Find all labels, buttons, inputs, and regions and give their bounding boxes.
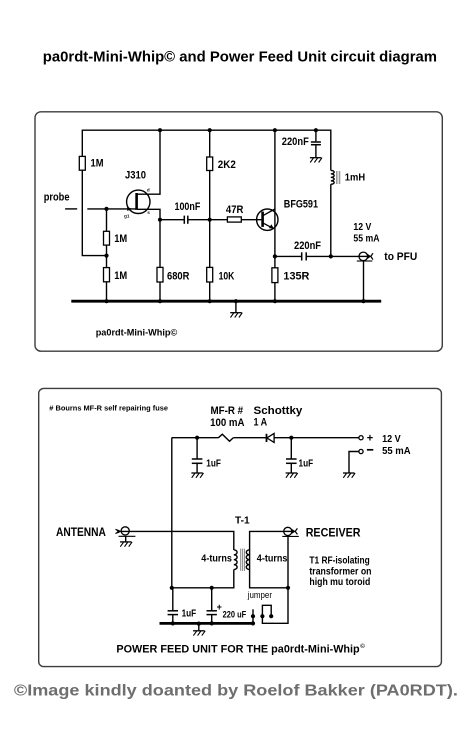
- resistor R3 1M: [104, 268, 110, 282]
- ground: hatch box1: [230, 313, 242, 318]
- capacitor C5 1uF with leads: [286, 438, 297, 473]
- label RECEIVER: [306, 525, 361, 539]
- node: C4 junction: [195, 436, 199, 440]
- svg-text:jumper: jumper: [247, 590, 272, 600]
- svg-text:55 mA: 55 mA: [382, 446, 411, 457]
- label to PFU: [384, 251, 417, 263]
- capacitor C7 220uF with leads: [207, 588, 217, 624]
- label T-1: [235, 515, 250, 526]
- label Schottky: [254, 405, 303, 417]
- ground: rail stub box2: [197, 622, 201, 631]
- wire: divider column segments: [106, 209, 108, 302]
- label T1 note line3: [309, 577, 370, 588]
- label 220nF C2: [282, 136, 309, 148]
- svg-text:4-turns: 4-turns: [257, 554, 288, 565]
- wire: 680R to rail: [159, 282, 161, 302]
- jumper JP1 link bracket: [262, 605, 271, 616]
- ground: minus terminal: [343, 473, 355, 478]
- label 47R: [226, 204, 244, 216]
- label J310: [125, 170, 146, 182]
- wire: source lead down: [138, 209, 161, 267]
- label 4-turns secondary: [257, 554, 288, 565]
- node: divider at ground rail: [104, 299, 108, 303]
- jumper JP1 pin 2: [260, 614, 264, 618]
- svg-text:1uF: 1uF: [206, 458, 221, 469]
- label 100 mA: [210, 417, 245, 429]
- resistor R7 47R with leads: [210, 217, 262, 222]
- wire: antenna to primary: [122, 531, 234, 550]
- svg-text:10K: 10K: [219, 271, 235, 283]
- wire: gate wire: [87, 208, 136, 210]
- svg-text:2K2: 2K2: [218, 159, 236, 171]
- svg-text:d: d: [147, 188, 150, 194]
- diode D1 Schottky: [267, 433, 275, 442]
- svg-text:100 mA: 100 mA: [210, 417, 245, 429]
- label 12 V pfu: [382, 434, 401, 445]
- label 2K2: [218, 159, 236, 171]
- ground: below C2: [310, 158, 322, 163]
- svg-text:probe: probe: [44, 192, 70, 204]
- wire: supply wire right segment: [274, 437, 359, 439]
- svg-text:135R: 135R: [283, 271, 309, 283]
- label copyright sup: [360, 643, 365, 650]
- ground: hatch box2: [193, 631, 205, 636]
- label 135R: [283, 271, 309, 283]
- svg-text:RECEIVER: RECEIVER: [306, 525, 361, 539]
- resistor R5 2K2: [207, 157, 213, 171]
- svg-text:high mu toroid: high mu toroid: [309, 577, 370, 588]
- svg-text:to PFU: to PFU: [384, 251, 417, 263]
- ground: C5: [286, 473, 298, 478]
- wire: supply wire left segment: [172, 437, 219, 439]
- node: C6 at rail: [171, 621, 175, 625]
- label ANTENNA: [56, 525, 106, 539]
- label 1M R1: [91, 158, 104, 170]
- pin label s: [147, 211, 150, 216]
- label 1uF C5: [299, 458, 314, 469]
- label 100nF: [175, 201, 201, 213]
- wire: collector-emitter column: [274, 130, 276, 256]
- svg-text:220nF: 220nF: [282, 136, 309, 148]
- label 1mH: [345, 172, 365, 183]
- wire: primary bottom return: [172, 570, 234, 588]
- svg-text:T-1: T-1: [235, 515, 250, 526]
- svg-text:pa0rdt-Mini-Whip© and Power Fe: pa0rdt-Mini-Whip© and Power Feed Unit ci…: [43, 49, 437, 66]
- wire: probe stub: [65, 208, 77, 210]
- wire: 2K2 column segments: [209, 130, 211, 301]
- wire: output shield to rail: [363, 261, 365, 302]
- connector: minus terminal: [359, 449, 363, 453]
- svg-text:1uF: 1uF: [299, 458, 314, 469]
- capacitor C4 1uF with leads: [192, 438, 203, 473]
- capacitor C1 100nF: [160, 216, 210, 224]
- node: gate junction: [104, 207, 108, 211]
- svg-text:47R: 47R: [226, 204, 244, 216]
- svg-text:12 V: 12 V: [382, 434, 401, 445]
- jumper JP1 pin 1: [251, 609, 255, 625]
- pin label g1: [124, 213, 130, 219]
- label plus sign: [367, 432, 373, 444]
- transistor Q1 J310 JFET: [127, 190, 150, 213]
- ground: main ground box1: [234, 299, 238, 313]
- resistor R2 1M: [104, 231, 110, 245]
- box: Mini-Whip circuit enclosure: [35, 112, 442, 351]
- wire: minus terminal to ground: [349, 452, 359, 474]
- svg-text:220 uF: 220 uF: [223, 609, 247, 619]
- svg-text:680R: 680R: [167, 271, 189, 283]
- transformer T1 secondary winding: [246, 550, 249, 570]
- label jumper: [247, 590, 272, 600]
- svg-text:+: +: [367, 432, 373, 444]
- label Bourns note: [49, 404, 168, 413]
- wire: ground rail box2: [160, 622, 254, 625]
- svg-text:©: ©: [360, 643, 365, 650]
- wire: drain to rail: [138, 131, 161, 194]
- fuse F1 MF-R zigzag: [219, 434, 234, 441]
- svg-text:MF-R #: MF-R #: [211, 405, 244, 417]
- transformer T1 core: [241, 549, 245, 571]
- node: divider mid junction: [104, 254, 108, 258]
- wire: supply wire mid segment: [233, 437, 266, 439]
- svg-text:1uF: 1uF: [182, 608, 197, 619]
- label plus C7: [217, 602, 222, 612]
- label pa0rdt-Mini-Whip: [96, 327, 178, 338]
- wire: ground rail box1: [71, 300, 381, 303]
- resistor R6 10K: [207, 267, 213, 282]
- inductor L1 1mH: [331, 170, 340, 256]
- jumper JP1 pin 3: [269, 614, 273, 618]
- label 220nF C3: [294, 240, 321, 252]
- label 1uF C4: [206, 458, 221, 469]
- label T1 note line1: [309, 556, 369, 567]
- node: rail-collector column: [273, 128, 277, 132]
- wire: secondary bottom: [250, 570, 288, 588]
- label 10K: [219, 271, 235, 283]
- label 55 mA: [353, 234, 380, 245]
- capacitor C2 220nF decoupling with leads: [311, 130, 321, 158]
- node: left feed at return: [170, 586, 174, 590]
- svg-text:+: +: [217, 602, 222, 612]
- svg-text:12 V: 12 V: [353, 222, 371, 233]
- node: C7 at rail: [210, 621, 214, 625]
- label probe: [44, 192, 70, 204]
- svg-text:4-turns: 4-turns: [201, 554, 232, 565]
- connector: +12V terminal: [359, 436, 363, 440]
- box: Power Feed Unit enclosure: [39, 388, 442, 666]
- node: 10K at ground rail: [208, 299, 212, 303]
- svg-text:©Image kindly doanted by Roelo: ©Image kindly doanted by Roelof Bakker (…: [14, 683, 458, 700]
- ground: C4: [191, 473, 203, 478]
- wire: secondary top to receiver: [250, 531, 284, 569]
- svg-text:Schottky: Schottky: [254, 405, 303, 417]
- svg-text:J310: J310: [125, 170, 146, 182]
- svg-text:1mH: 1mH: [345, 172, 365, 183]
- svg-text:g1: g1: [124, 213, 130, 219]
- wire: top supply rail: [82, 130, 330, 170]
- label T1 note line2: [309, 566, 371, 577]
- svg-text:BFG591: BFG591: [284, 199, 318, 211]
- node: emitter junction: [273, 254, 277, 258]
- svg-text:transformer on: transformer on: [309, 566, 371, 577]
- label 1M R3: [114, 270, 127, 282]
- node: secondary return junction: [286, 586, 290, 590]
- svg-text:POWER FEED UNIT FOR THE pa0rdt: POWER FEED UNIT FOR THE pa0rdt-Mini-Whip: [116, 644, 360, 656]
- wire: pin2 to receiver return: [262, 588, 288, 624]
- resistor R1 1M: [79, 156, 85, 170]
- label 12 V: [353, 222, 371, 233]
- svg-text:ANTENNA: ANTENNA: [56, 525, 106, 539]
- svg-text:T1 RF-isolating: T1 RF-isolating: [309, 556, 369, 567]
- label 680R: [167, 271, 189, 283]
- node: 1mH-output junction: [329, 254, 333, 258]
- svg-text:s: s: [147, 211, 150, 216]
- caption: [14, 683, 458, 700]
- label MF-R #: [211, 405, 244, 417]
- svg-text:pa0rdt-Mini-Whip©: pa0rdt-Mini-Whip©: [96, 327, 178, 338]
- label 1uF C6: [182, 608, 197, 619]
- node: C5 junction: [289, 436, 293, 440]
- pin label d: [147, 188, 150, 194]
- node: rail-drain column: [158, 128, 162, 132]
- svg-text:1 A: 1 A: [254, 417, 268, 429]
- node: rail-2K2 column: [208, 128, 212, 132]
- connector J2 antenna jack: [116, 527, 136, 542]
- svg-text:55 mA: 55 mA: [353, 234, 380, 245]
- node: 135R at ground rail: [273, 299, 277, 303]
- svg-text:100nF: 100nF: [175, 201, 201, 213]
- label 1M R2: [114, 233, 127, 245]
- label minus sign: [367, 449, 373, 451]
- resistor R4 680R: [157, 267, 163, 282]
- transformer T1 primary winding: [234, 550, 237, 570]
- svg-text:220nF: 220nF: [294, 240, 321, 252]
- resistor R8 135R: [272, 268, 278, 283]
- capacitor C6 1uF with leads: [168, 588, 178, 624]
- connector J3 receiver jack: [282, 527, 299, 536]
- title: [43, 49, 437, 66]
- node: 2K2-100nF junction: [208, 218, 212, 222]
- label 55 mA pfu: [382, 446, 411, 457]
- svg-text:1M: 1M: [114, 270, 127, 282]
- transistor Q2 BFG591: [257, 209, 278, 230]
- node: 680R at ground rail: [158, 299, 162, 303]
- label 4-turns primary: [201, 554, 232, 565]
- svg-text:1M: 1M: [91, 158, 104, 170]
- ground: antenna jack: [120, 542, 132, 547]
- wire: 135R leads: [274, 256, 276, 301]
- wire: receiver shield down: [287, 536, 289, 587]
- label BFG591: [284, 199, 318, 211]
- label 1 A: [254, 417, 268, 429]
- node: output shield at rail: [361, 299, 365, 303]
- svg-text:# Bourns MF-R self repairing f: # Bourns MF-R self repairing fuse: [49, 404, 168, 413]
- connector J1 output jack to PFU: [357, 252, 373, 261]
- node: 220uF at return: [210, 586, 214, 590]
- node: source-100nF junction: [158, 218, 162, 222]
- wire: left vertical feed: [171, 438, 173, 588]
- capacitor C3 220nF output with leads: [275, 252, 359, 260]
- label 220 uF: [223, 609, 247, 619]
- node: rail-220nF column: [314, 128, 318, 132]
- svg-text:1M: 1M: [114, 233, 127, 245]
- label POWER FEED UNIT: [116, 644, 360, 656]
- wire: R1 bottom to divider mid: [82, 170, 106, 255]
